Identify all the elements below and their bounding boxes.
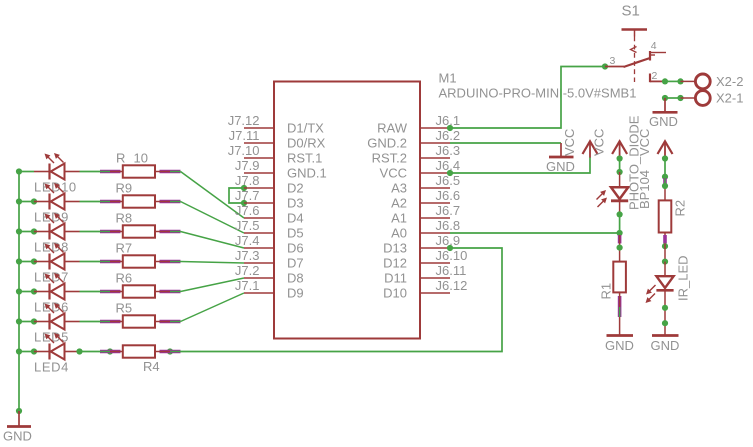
- svg-text:J6.8: J6.8: [436, 218, 461, 233]
- node junction: [677, 95, 683, 101]
- wire: [181, 293, 245, 322]
- power VCC: [562, 129, 598, 158]
- svg-text:D2: D2: [287, 180, 304, 195]
- svg-text:J6.11: J6.11: [436, 263, 467, 278]
- wire: [19, 231, 34, 233]
- svg-text:D3: D3: [287, 195, 304, 210]
- pin J7.5 (D5): [235, 218, 304, 240]
- pin J7.10 (RST.1): [228, 143, 323, 165]
- wire: [181, 202, 245, 234]
- svg-text:ARDUINO-PRO-MINI-5.0V#SMB1: ARDUINO-PRO-MINI-5.0V#SMB1: [439, 86, 637, 101]
- wire: [181, 248, 503, 352]
- wire: [665, 80, 681, 82]
- svg-text:R4: R4: [143, 359, 160, 374]
- wire: [664, 243, 666, 261]
- node junction: [662, 243, 668, 249]
- pin J6.3 (RST.2): [372, 143, 460, 165]
- pin J6.4 (VCC): [380, 158, 461, 180]
- node junction: [662, 259, 668, 265]
- wire: [619, 214, 621, 236]
- svg-text:A0: A0: [391, 225, 407, 240]
- svg-text:S1: S1: [622, 3, 640, 20]
- pin J6.10 (D12): [383, 248, 467, 270]
- resistor R10: [100, 151, 181, 178]
- svg-text:D13: D13: [383, 240, 407, 255]
- pin J6.2 (GND.2): [367, 128, 460, 150]
- pin J7.6 (D4): [235, 203, 304, 225]
- wire: [19, 201, 34, 203]
- wire: [181, 262, 245, 264]
- wire: [229, 188, 244, 203]
- pin J6.8 (A0): [391, 218, 460, 240]
- svg-text:R9: R9: [116, 181, 133, 196]
- node junction: [31, 228, 37, 234]
- svg-text:GND: GND: [3, 429, 32, 444]
- ground: [651, 336, 680, 354]
- LED LED9: [34, 183, 80, 225]
- svg-text:R8: R8: [116, 211, 133, 226]
- node junction: [16, 168, 22, 174]
- node junction: [447, 125, 453, 131]
- node junction: [662, 305, 668, 311]
- node junction: [16, 228, 22, 234]
- svg-text:RAW: RAW: [377, 120, 408, 135]
- LED LED6: [34, 273, 80, 315]
- svg-text:D0/RX: D0/RX: [287, 135, 326, 150]
- svg-text:J6.9: J6.9: [436, 233, 461, 248]
- svg-text:D8: D8: [287, 270, 304, 285]
- svg-text:J7.11: J7.11: [229, 128, 260, 143]
- resistor R8: [100, 211, 181, 238]
- wire VCC: [450, 157, 590, 173]
- pin J7.9 (GND.1): [235, 158, 327, 180]
- svg-text:D5: D5: [287, 225, 304, 240]
- node junction: [16, 258, 22, 264]
- node junction: [602, 63, 608, 69]
- node junction: [617, 230, 623, 236]
- wire: [80, 351, 101, 353]
- node junction: [31, 288, 37, 294]
- ground: [605, 336, 634, 354]
- connector X2-2: [681, 74, 744, 89]
- svg-text:M1: M1: [439, 71, 457, 86]
- wire RAW to S1: [450, 67, 605, 129]
- pin J7.8 (D2): [235, 173, 304, 195]
- node junction: [31, 318, 37, 324]
- svg-text:VCC: VCC: [562, 129, 577, 156]
- resistor R2: [659, 178, 688, 243]
- node junction: [31, 348, 37, 354]
- svg-text:GND: GND: [649, 114, 678, 129]
- resistor R9: [100, 181, 181, 208]
- pin J7.3 (D7): [235, 248, 304, 270]
- svg-text:J6.4: J6.4: [436, 158, 461, 173]
- wire: [18, 172, 20, 412]
- node junction: [16, 348, 22, 354]
- pin J6.12 (D10): [383, 278, 467, 300]
- svg-text:J7.9: J7.9: [235, 158, 260, 173]
- svg-text:J7.1: J7.1: [235, 278, 260, 293]
- resistor R6: [100, 271, 181, 298]
- pin J7.1 (D9): [235, 278, 304, 300]
- node junction: [31, 258, 37, 264]
- node junction: [662, 320, 668, 326]
- op-amp U1 : IC M1 ARDUINO-PRO-MINI body: [274, 82, 420, 339]
- svg-text:GND: GND: [651, 338, 680, 353]
- switch lever: [624, 58, 651, 67]
- svg-text:2: 2: [652, 70, 658, 82]
- pin J7.4 (D6): [235, 233, 304, 255]
- svg-text:J7.4: J7.4: [235, 233, 260, 248]
- node junction: [662, 183, 668, 189]
- pin J6.1 (RAW): [377, 113, 460, 135]
- node junction: [241, 200, 247, 206]
- LED LED10: [34, 153, 80, 195]
- svg-text:A2: A2: [391, 195, 407, 210]
- svg-text:4: 4: [651, 40, 657, 52]
- svg-text:J7.5: J7.5: [235, 218, 260, 233]
- node junction: [16, 288, 22, 294]
- svg-text:R: R: [116, 151, 125, 166]
- wire: [80, 321, 101, 323]
- power VCC: [592, 129, 628, 158]
- resistor R1: [599, 235, 626, 336]
- svg-text:A3: A3: [391, 180, 407, 195]
- svg-text:D1/TX: D1/TX: [287, 120, 324, 135]
- node junction: [167, 348, 173, 354]
- svg-text:X2-1: X2-1: [716, 90, 743, 105]
- resistor R5: [100, 301, 181, 328]
- svg-text:RST.2: RST.2: [372, 150, 407, 165]
- wire GND.2: [450, 142, 561, 144]
- node junction: [16, 198, 22, 204]
- svg-text:D11: D11: [384, 270, 407, 285]
- pin 3: [605, 55, 624, 67]
- node junction: [677, 78, 683, 84]
- ground: [649, 98, 678, 129]
- pin J6.7 (A1): [391, 203, 460, 225]
- node junction: [107, 348, 113, 354]
- svg-text:R5: R5: [116, 301, 133, 316]
- node junction: [447, 245, 453, 251]
- svg-text:R1: R1: [599, 283, 614, 300]
- svg-text:J6.6: J6.6: [436, 188, 461, 203]
- svg-text:VCC: VCC: [592, 129, 607, 156]
- node junction: [662, 155, 668, 161]
- svg-text:10: 10: [134, 151, 148, 166]
- svg-text:A1: A1: [391, 210, 407, 225]
- node junction: [241, 185, 247, 191]
- svg-text:J7.10: J7.10: [228, 143, 260, 158]
- wire: [619, 158, 621, 173]
- svg-text:X2-2: X2-2: [716, 74, 743, 89]
- LED LED8: [34, 213, 80, 255]
- node junction: [662, 95, 668, 101]
- pin J6.9 (D13): [383, 233, 460, 255]
- wire A0 to photodiode: [450, 232, 620, 234]
- svg-text:D4: D4: [287, 210, 304, 225]
- node junction: [31, 198, 37, 204]
- node junction: [617, 169, 623, 175]
- pin J7.11 (D0/RX): [229, 128, 326, 150]
- node junction: [76, 348, 82, 354]
- pin J6.5 (A3): [391, 173, 460, 195]
- LED LED5: [34, 303, 80, 345]
- node junction: [617, 245, 623, 251]
- switch S1: [622, 3, 648, 83]
- wire: [19, 171, 34, 173]
- svg-text:J6.2: J6.2: [436, 128, 461, 143]
- pin J7.2 (D8): [235, 263, 304, 285]
- svg-text:J6.3: J6.3: [436, 143, 461, 158]
- svg-text:D10: D10: [383, 285, 407, 300]
- LED LED7: [34, 243, 80, 285]
- wire: [19, 261, 34, 263]
- wire: [80, 231, 101, 233]
- pin J7.12 (D1/TX): [228, 113, 324, 135]
- node junction: [617, 211, 623, 217]
- pin J6.6 (A2): [391, 188, 460, 210]
- wire: [19, 291, 34, 293]
- node junction: [662, 78, 668, 84]
- svg-text:D12: D12: [383, 255, 407, 270]
- svg-text:J6.1: J6.1: [436, 113, 461, 128]
- svg-text:D7: D7: [287, 255, 304, 270]
- pin 2: [650, 70, 664, 82]
- svg-text:J7.6: J7.6: [235, 203, 260, 218]
- svg-text:VCC: VCC: [380, 165, 407, 180]
- svg-text:J7.7: J7.7: [235, 188, 260, 203]
- svg-text:J7.3: J7.3: [235, 248, 260, 263]
- pin J7.7 (D3): [235, 188, 304, 210]
- connector X2-1: [681, 90, 744, 105]
- svg-text:D6: D6: [287, 240, 304, 255]
- node junction: [16, 318, 22, 324]
- wire: [80, 171, 101, 173]
- LED LED4: [34, 333, 80, 375]
- node junction: [662, 174, 668, 180]
- svg-text:J7.8: J7.8: [235, 173, 260, 188]
- svg-text:GND.1: GND.1: [287, 165, 327, 180]
- node junction: [447, 170, 453, 176]
- svg-text:D9: D9: [287, 285, 304, 300]
- wire: [19, 321, 34, 323]
- svg-text:GND: GND: [546, 159, 575, 174]
- power VCC: [637, 129, 673, 158]
- svg-text:J6.7: J6.7: [436, 203, 461, 218]
- svg-text:RST.1: RST.1: [287, 150, 322, 165]
- wire: [80, 261, 101, 263]
- svg-text:R6: R6: [116, 271, 133, 286]
- wire: [664, 158, 666, 179]
- svg-text:J6.12: J6.12: [436, 278, 468, 293]
- pin 4: [650, 40, 666, 61]
- svg-text:J7.12: J7.12: [228, 113, 260, 128]
- ground: [546, 143, 575, 174]
- svg-text:R7: R7: [116, 241, 133, 256]
- pin J6.11 (D11): [384, 263, 466, 285]
- svg-text:R2: R2: [673, 200, 688, 217]
- wire: [181, 232, 245, 249]
- svg-text:J6.5: J6.5: [436, 173, 461, 188]
- LED IR_LED: [646, 255, 691, 335]
- node junction: [617, 155, 623, 161]
- svg-text:BP104: BP104: [637, 170, 652, 209]
- svg-text:GND: GND: [605, 338, 634, 353]
- svg-text:LED4: LED4: [34, 360, 69, 375]
- wire: [80, 291, 101, 293]
- svg-text:J7.2: J7.2: [235, 263, 260, 278]
- diode PHOTO_DIODE BP104: [597, 115, 653, 214]
- svg-text:IR_LED: IR_LED: [676, 255, 691, 301]
- wire: [181, 172, 245, 219]
- wire: [80, 201, 101, 203]
- ground: [3, 408, 32, 444]
- wire: [665, 97, 681, 99]
- svg-text:3: 3: [610, 55, 616, 67]
- wire: [181, 278, 245, 292]
- svg-text:GND.2: GND.2: [367, 135, 407, 150]
- resistor R7: [100, 241, 181, 268]
- wire: [19, 351, 34, 353]
- resistor R4: [100, 345, 181, 374]
